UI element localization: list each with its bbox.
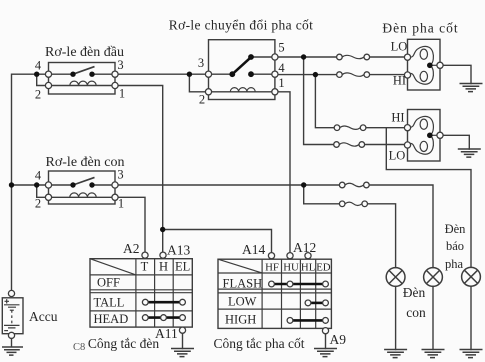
svg-text:A13: A13 [167, 243, 190, 258]
svg-text:ED: ED [316, 262, 331, 274]
svg-text:1: 1 [119, 87, 125, 101]
svg-text:Rơ-le đèn con: Rơ-le đèn con [46, 155, 125, 170]
svg-text:báo: báo [446, 239, 464, 253]
svg-text:LO: LO [389, 149, 406, 163]
svg-text:T: T [141, 260, 149, 274]
svg-text:Rơ-le đèn đầu: Rơ-le đèn đầu [45, 45, 124, 60]
svg-text:HI: HI [391, 111, 404, 125]
svg-text:A2: A2 [123, 241, 140, 256]
svg-text:EL: EL [175, 260, 190, 274]
svg-text:Đèn: Đèn [403, 285, 426, 300]
svg-text:Đèn: Đèn [445, 222, 467, 236]
svg-text:A9: A9 [330, 332, 347, 347]
svg-text:4: 4 [35, 59, 42, 73]
svg-text:Công tắc đèn: Công tắc đèn [88, 336, 159, 351]
svg-text:Rơ-le chuyển đổi pha cốt: Rơ-le chuyển đổi pha cốt [169, 18, 314, 33]
svg-text:A12: A12 [293, 240, 316, 255]
svg-text:LOW: LOW [228, 295, 257, 309]
svg-text:con: con [406, 305, 426, 320]
svg-text:5: 5 [278, 41, 284, 55]
svg-text:HEAD: HEAD [94, 312, 129, 326]
svg-text:OFF: OFF [97, 276, 120, 290]
svg-text:LO: LO [391, 40, 408, 54]
svg-text:TALL: TALL [94, 296, 125, 310]
svg-text:1: 1 [278, 76, 284, 90]
svg-text:HF: HF [265, 262, 279, 274]
svg-text:4: 4 [278, 61, 285, 75]
svg-text:HI: HI [393, 74, 406, 88]
svg-text:2: 2 [199, 93, 205, 107]
svg-text:Đèn pha cốt: Đèn pha cốt [382, 21, 458, 36]
svg-text:2: 2 [35, 197, 41, 211]
svg-text:HU: HU [283, 262, 299, 274]
svg-text:Công tắc pha cốt: Công tắc pha cốt [213, 336, 304, 351]
svg-text:C8: C8 [73, 342, 85, 353]
svg-text:HIGH: HIGH [225, 312, 256, 326]
svg-text:A14: A14 [242, 242, 265, 257]
svg-text:3: 3 [198, 56, 204, 70]
svg-text:Accu: Accu [29, 309, 58, 324]
svg-text:HL: HL [301, 262, 315, 274]
svg-text:FLASH: FLASH [223, 277, 263, 291]
svg-text:1: 1 [118, 197, 124, 211]
svg-text:H: H [159, 260, 168, 274]
svg-text:3: 3 [117, 58, 123, 72]
svg-text:pha: pha [445, 257, 464, 271]
svg-text:2: 2 [35, 88, 41, 102]
svg-text:4: 4 [35, 169, 42, 183]
